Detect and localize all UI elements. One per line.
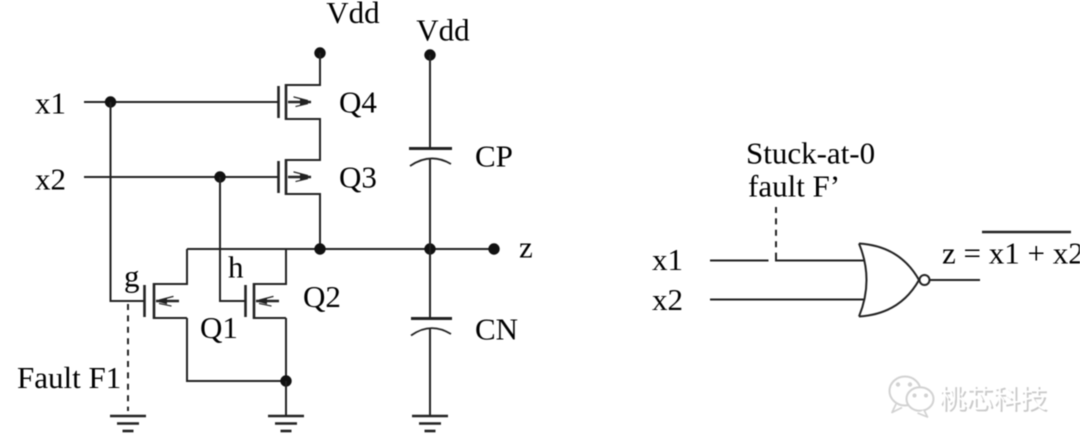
node dot z at pull-up [314,243,325,254]
svg-text:Vdd: Vdd [326,0,380,30]
transistor Q2 [246,283,280,319]
ground (below CN) [412,416,448,431]
wire CN to ground [429,328,431,415]
label x2 (gate input) [652,282,683,317]
power label Vdd (Q4 branch) [326,0,380,30]
wire Q1 drain to z line [154,249,187,284]
svg-text:x1: x1 [652,242,683,277]
svg-text:x1: x1 [35,86,66,121]
svg-text:CP: CP [475,139,513,174]
label CN [475,312,518,347]
svg-text:z: z [519,230,533,265]
label z (left circuit) [519,230,533,265]
wire x1 input left segment [710,260,769,262]
label Fault F1 [17,360,121,395]
wire node g: x1 to Q1 gate [111,102,144,301]
svg-text:z = x1 + x2: z = x1 + x2 [942,236,1080,271]
node dot x2 branch [214,171,225,182]
wire x2 input [710,299,865,301]
watermark wechat icon [890,377,934,418]
wire node h: x2 to Q2 gate [220,177,245,301]
node Vdd dot (Q4 branch) [314,47,325,58]
ground (below Q1 Q2 sources) [268,416,304,431]
wire fault F' dashed pointer [775,207,777,255]
NOR gate inversion bubble [920,275,930,285]
svg-text:Fault F1: Fault F1 [17,360,121,395]
svg-text:Q2: Q2 [303,279,341,314]
label g [124,259,140,294]
svg-text:h: h [228,250,244,285]
wire Q3 source to node z [286,194,320,249]
svg-text:fault F’: fault F’ [748,169,840,204]
wire Q1 source to common source node [154,318,286,381]
label Stuck-at-0 [746,136,875,171]
label equation z = x1 + x2 [942,236,1080,271]
node dot z terminal [488,243,499,254]
label Q3 [339,160,377,195]
label h [228,250,244,285]
transistor Q4 [264,84,312,120]
svg-text:Vdd: Vdd [416,13,470,48]
equation overline [982,231,1071,233]
label CP [475,139,513,174]
label Q4 [339,85,377,120]
ground (fault F1) [110,416,146,431]
label fault F' [748,169,840,204]
wire Vdd to CP [429,55,431,147]
wire x1 input right segment with fault stub [776,255,865,261]
label Q1 [200,310,238,345]
node dot z at capacitors [424,243,435,254]
wire Q4 source to Q3 drain [286,119,320,160]
svg-text:x2: x2 [35,162,66,197]
svg-text:g: g [124,259,140,294]
wire Vdd dot to Q4 drain [286,53,320,85]
label x1 (gate input) [652,242,683,277]
wire Q2 source down [254,318,286,381]
svg-text:CN: CN [475,312,518,347]
svg-text:x2: x2 [652,282,683,317]
transistor Q3 [279,159,312,195]
wire NOR output [930,279,980,281]
node dot x1 branch [105,96,116,107]
label Q2 [303,279,341,314]
wire x2 to Q3 gate [84,176,278,178]
svg-text:Q4: Q4 [339,85,377,120]
power label Vdd (capacitor branch) [416,13,470,48]
node dot common source [280,375,291,386]
capacitor CP [409,149,452,167]
svg-text:Q3: Q3 [339,160,377,195]
watermark text 桃芯科技 [940,385,1048,412]
svg-text:Q1: Q1 [200,310,238,345]
capacitor CN [411,319,452,336]
wire CP to z to CN [429,159,431,319]
NOR gate U1 body [859,244,919,317]
svg-text:Stuck-at-0: Stuck-at-0 [746,136,875,171]
wire Q2 drain to z line [254,249,286,284]
transistor Q1 [145,283,180,319]
wire fault F1 dashed stub [127,304,129,411]
wire x1 to Q4 gate [84,101,278,103]
node Vdd dot (capacitor branch) [424,49,435,60]
label x1 (left circuit) [35,86,66,121]
label x2 (left circuit) [35,162,66,197]
wire source node to ground [285,381,287,415]
wire z line [187,248,494,250]
